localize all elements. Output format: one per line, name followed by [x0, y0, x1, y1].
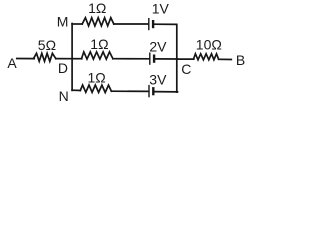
wire middle branch center: [113, 58, 149, 60]
svg-text:5Ω: 5Ω: [38, 37, 56, 53]
wire bottom branch center: [111, 90, 148, 92]
battery B1 short plate: [152, 21, 154, 27]
resistor 10 ohm: [194, 54, 219, 60]
wire middle branch right stub: [155, 58, 178, 60]
wire top branch left stub: [72, 23, 82, 25]
svg-text:C: C: [181, 61, 191, 77]
battery B3 long plate: [148, 86, 150, 97]
svg-text:A: A: [7, 55, 17, 71]
wire C to 10-ohm resistor: [177, 58, 194, 60]
svg-text:N: N: [59, 88, 69, 104]
wire 10-ohm to B: [219, 58, 232, 60]
battery B3 short plate: [152, 88, 154, 94]
wire right vertical bus at C: [176, 24, 178, 92]
svg-text:M: M: [57, 13, 69, 29]
svg-text:1V: 1V: [152, 1, 170, 17]
svg-text:1Ω: 1Ω: [88, 69, 106, 85]
svg-text:D: D: [58, 60, 68, 76]
wire A to 5-ohm resistor: [17, 58, 34, 60]
resistor 5 ohm: [34, 53, 56, 61]
wire bottom branch left stub: [72, 89, 80, 91]
wire middle branch D stub: [72, 58, 82, 60]
svg-text:3V: 3V: [149, 72, 167, 88]
battery B1 long plate: [148, 19, 150, 30]
resistor R-bot 1 ohm: [80, 85, 111, 93]
battery B2 long plate: [149, 53, 151, 64]
resistor R-top 1 ohm: [82, 18, 114, 26]
svg-text:10Ω: 10Ω: [196, 37, 222, 53]
svg-text:B: B: [236, 52, 245, 68]
wire 5-ohm to node D: [56, 58, 73, 60]
wire top branch right stub: [154, 23, 177, 25]
wire top branch middle: [114, 23, 148, 25]
battery B2 short plate: [153, 56, 155, 62]
wire bottom branch right stub: [154, 91, 177, 93]
svg-text:2V: 2V: [149, 38, 167, 54]
wire left vertical bus at D: [71, 24, 73, 91]
svg-text:1Ω: 1Ω: [90, 36, 108, 52]
resistor R-mid 1 ohm: [82, 52, 113, 59]
svg-text:1Ω: 1Ω: [88, 0, 106, 16]
